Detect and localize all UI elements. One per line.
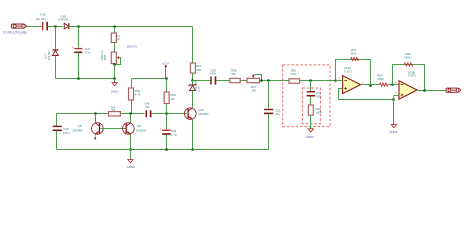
ground GND2 (input section) xyxy=(112,83,117,86)
wire down to GND2 xyxy=(393,100,395,125)
resistor R54 47k xyxy=(109,112,121,116)
svg-text:4.7u: 4.7u xyxy=(171,133,177,137)
junction U13B inverting input xyxy=(391,83,394,86)
wire C48 150n to bottom rail xyxy=(56,131,58,150)
ground GND2 (transistor pair) xyxy=(128,160,133,163)
svg-text:+: + xyxy=(72,45,74,49)
capacitor C48 150n xyxy=(53,126,62,131)
wire RV6 to ground rail xyxy=(114,65,116,79)
resistor R1 1K xyxy=(111,33,116,43)
wire node to C47 xyxy=(78,27,80,48)
wire C51 down to bottom rail xyxy=(193,114,269,150)
wire zener to Q10 collector xyxy=(192,91,194,108)
junction Q8 collector xyxy=(94,112,97,115)
junction node top at R1 xyxy=(113,25,116,28)
resistor R57 33K xyxy=(190,63,195,73)
wire down to C48 150n xyxy=(56,114,58,127)
wire into U13B +in xyxy=(394,95,400,97)
svg-text:GND2: GND2 xyxy=(111,90,119,94)
capacitor C48 4.7u (polarized) xyxy=(159,127,170,135)
svg-text:330k: 330k xyxy=(350,51,357,55)
capacitor C47 (polarized) xyxy=(72,45,83,53)
junction U13A output xyxy=(369,84,372,87)
junction node top at D17 xyxy=(54,25,57,28)
resistor R56 1M xyxy=(164,92,169,104)
wire corner down to R57 xyxy=(192,27,194,64)
svg-text:330n: 330n xyxy=(315,94,322,98)
junction Q9 collector xyxy=(129,112,132,115)
transistor Q10 2N3904 xyxy=(184,108,196,120)
capacitor C54 330n xyxy=(307,91,315,96)
wire +12V down to rail xyxy=(165,68,167,79)
junction Q9 emitter at bottom rail xyxy=(129,148,132,151)
junction node top at C47 xyxy=(77,25,80,28)
potentiometer RV6 500K body xyxy=(111,52,116,64)
op-amp U13B TL072 xyxy=(399,81,417,99)
svg-text:10u 63V: 10u 63V xyxy=(35,17,46,21)
wire C45 to D18 xyxy=(48,26,63,28)
svg-text:4.7u: 4.7u xyxy=(85,51,91,55)
resistor R63 zigzag xyxy=(351,57,359,60)
wire C50 to R58 xyxy=(217,80,230,82)
svg-text:1K: 1K xyxy=(116,37,120,41)
diode D17 1N4148 xyxy=(52,50,58,56)
junction +in ground net xyxy=(392,98,395,101)
power +12V symbol xyxy=(165,65,167,67)
wire node to zener xyxy=(192,81,194,85)
wire into U13A -in xyxy=(336,80,343,82)
op-amp U13A TL072 xyxy=(343,76,361,94)
junction U13B output xyxy=(423,89,426,92)
resistor R60 100K xyxy=(308,105,313,115)
svg-text:33K: 33K xyxy=(196,68,201,72)
wire RV6 wiper loop xyxy=(115,58,121,65)
dashed box inner (RC network) xyxy=(302,88,320,124)
wire D18 to corner xyxy=(69,26,193,28)
svg-text:150n: 150n xyxy=(63,131,70,135)
wire node to Q9 collector xyxy=(130,114,132,123)
svg-text:TL072: TL072 xyxy=(408,74,417,78)
diode D18 1N4148 xyxy=(64,23,69,29)
wire R55 to Q9 collector node xyxy=(131,101,133,114)
svg-text:45W: 45W xyxy=(103,54,107,60)
capacitor C51 47n xyxy=(264,109,273,114)
wire rail corner down to R55 xyxy=(131,79,133,89)
svg-text:2N3904: 2N3904 xyxy=(72,128,83,132)
wire node to Q8 collector xyxy=(95,114,97,123)
wire RV7 to R59 xyxy=(260,80,290,82)
wire node to D17 cathode xyxy=(55,27,57,50)
svg-text:1N4148: 1N4148 xyxy=(58,18,69,22)
svg-text:+: + xyxy=(159,127,161,131)
svg-text:1N4148: 1N4148 xyxy=(47,51,51,61)
wire R60 to GND2 xyxy=(310,116,312,129)
wire base node down to C48 4.7u xyxy=(166,114,168,130)
zener diode 1N5231B xyxy=(189,84,197,91)
junction base node / C48 top xyxy=(165,112,168,115)
resistor R58 33k xyxy=(230,78,240,82)
junction C48 4.7u at bottom rail xyxy=(165,148,168,151)
wire D17 anode to ground rail xyxy=(55,56,57,79)
svg-text:33k: 33k xyxy=(231,72,236,76)
wire R59 to U13A inverting input xyxy=(300,80,336,82)
svg-text:1.5K: 1.5K xyxy=(290,72,296,76)
wire U13A +in to ground net xyxy=(339,89,394,100)
transistor Q8 2N3904 xyxy=(92,123,104,135)
wire node to R1 xyxy=(114,27,116,34)
capacitor C45 (polarized) xyxy=(42,22,48,32)
junction RV7 wiper xyxy=(260,79,263,82)
junction at C51 xyxy=(267,79,270,82)
resistor R65 zigzag xyxy=(404,63,413,66)
wire C48 4.7u to bottom rail xyxy=(166,135,168,150)
junction ground rail at C47 xyxy=(77,77,80,80)
svg-text:TL072: TL072 xyxy=(344,69,353,73)
wire U13B out to output jack xyxy=(418,90,447,92)
svg-text:330k: 330k xyxy=(404,55,411,59)
wire ground rail D17-C47-RV6 xyxy=(56,78,115,80)
wire Q8 base to Q9 base xyxy=(101,128,127,130)
wire rail down to R56 xyxy=(166,79,168,93)
svg-text:DECAY: DECAY xyxy=(127,44,137,48)
wire node to C50 xyxy=(193,80,211,82)
svg-text:33n: 33n xyxy=(145,105,150,109)
wire C48 to R54 xyxy=(57,113,109,115)
op-amp U13A input polarity marks xyxy=(344,81,347,90)
svg-text:GND2: GND2 xyxy=(389,130,397,134)
connector J1 input jack xyxy=(11,24,26,28)
capacitor C49 33n xyxy=(146,110,152,117)
junction RV6 bottom xyxy=(113,63,116,66)
wire R65 feedback loop xyxy=(393,65,425,91)
op-amp U13B input polarity marks xyxy=(401,85,404,97)
wire R54 to C49 xyxy=(121,113,145,115)
svg-text:1M: 1M xyxy=(170,97,175,101)
wire to GND2 symbol xyxy=(114,79,116,83)
transistor Q9 2N3904 xyxy=(123,123,135,135)
wire R1 to RV6 pot xyxy=(114,43,116,53)
junction U13A inverting input xyxy=(334,79,337,82)
svg-text:330k: 330k xyxy=(377,77,384,81)
wire R57 to node xyxy=(192,74,194,81)
svg-text:Q9: Q9 xyxy=(137,124,141,128)
svg-text:C45: C45 xyxy=(40,12,46,16)
wire up to U13B +in xyxy=(393,96,395,100)
svg-text:Q8: Q8 xyxy=(78,124,82,128)
resistor R55 4.7k xyxy=(129,88,134,100)
junction R57/zener/C50 xyxy=(191,79,194,82)
wire Q8 emitter stub (unconnected) xyxy=(94,134,96,138)
svg-text:47n: 47n xyxy=(275,112,280,116)
junction Q10 emitter at bottom rail xyxy=(191,148,194,151)
svg-text:100K: 100K xyxy=(315,110,322,114)
wire Q10 emitter to bottom rail xyxy=(192,120,194,150)
wire +12V rail xyxy=(132,78,167,80)
junction +12V rail at R56 xyxy=(165,77,168,80)
wire RV7 wiper loop xyxy=(254,75,262,81)
wire R56 to base node xyxy=(166,104,168,114)
svg-text:1M: 1M xyxy=(252,89,257,93)
svg-text:+12V: +12V xyxy=(162,61,169,65)
dashed box outer (filter block) xyxy=(283,65,330,127)
svg-text:+: + xyxy=(42,28,44,32)
connector J2 output jack xyxy=(446,88,461,92)
wire C49 to Q10 base xyxy=(152,113,187,115)
wire bottom rail left part xyxy=(57,149,193,151)
resistor R64 zigzag xyxy=(380,83,388,86)
ground GND2 (op-amps) xyxy=(391,125,396,128)
svg-text:500K lin: 500K lin xyxy=(100,50,104,60)
wire node down to C51 xyxy=(268,81,270,109)
wire J1 to C45 xyxy=(27,26,43,28)
wire Q9 emitter to bottom rail xyxy=(130,135,132,150)
junction ground rail at RV6 xyxy=(113,77,116,80)
svg-text:4.7k: 4.7k xyxy=(135,93,141,97)
svg-text:140n: 140n xyxy=(210,72,217,76)
svg-text:2N3904: 2N3904 xyxy=(198,112,209,116)
junction at C54 xyxy=(309,79,312,82)
wire R64 to U13B -in xyxy=(389,84,400,86)
potentiometer RV7 wiper arrow xyxy=(252,75,255,78)
ground GND2 (filter block) xyxy=(308,129,313,132)
wire to GND2 below Q9 xyxy=(130,150,132,160)
svg-text:11 mS 10V pulse: 11 mS 10V pulse xyxy=(3,30,27,34)
wire C54 to R60 xyxy=(310,97,312,106)
wire R58 to RV7 xyxy=(241,80,248,82)
wire U13A out to R64 xyxy=(361,84,380,86)
resistor R59 1.5K xyxy=(289,79,300,83)
svg-text:GND2: GND2 xyxy=(127,165,135,169)
capacitor C50 140n xyxy=(210,76,216,84)
potentiometer RV7 1M body xyxy=(247,78,260,82)
wire node down to C54 xyxy=(310,81,312,92)
svg-text:GND2: GND2 xyxy=(306,135,314,139)
wire C47 to ground rail xyxy=(78,53,80,79)
svg-text:2N3904: 2N3904 xyxy=(136,128,147,132)
wire R63 feedback loop xyxy=(336,60,371,86)
potentiometer RV6 wiper arrow xyxy=(117,56,120,59)
svg-text:D19: D19 xyxy=(197,86,201,91)
